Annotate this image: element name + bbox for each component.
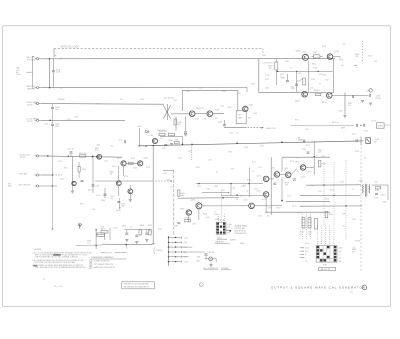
svg-text:CR131: CR131 [145,132,150,134]
box B167 amplitude [377,123,385,128]
wire osc inner rail [276,70,332,72]
svg-text:R171: R171 [386,125,390,127]
svg-text:+25V (DCPL): +25V (DCPL) [163,98,174,100]
svg-text:1k: 1k [352,189,354,191]
svg-text:VALUES AND S/N CHANGES OF: VALUES AND S/N CHANGES OF [124,285,149,288]
svg-text:R191: R191 [300,232,304,234]
node junction row2 [49,87,51,89]
svg-text:R187: R187 [342,213,346,215]
wire Q141 emitter down [175,117,177,132]
wire P180 drop [168,265,170,267]
resistor R182 [185,220,191,222]
svg-text:R116: R116 [88,189,92,191]
svg-text:R150: R150 [306,145,310,147]
svg-text:+20V: +20V [376,95,381,97]
svg-text:ALL OPERATION: ALL OPERATION [204,267,219,270]
notes bold patch 2 [33,265,37,267]
svg-text:R162: R162 [280,74,284,76]
svg-text:(GND): (GND) [116,210,121,212]
connector J101 [36,58,38,60]
resistor R131 [159,133,165,136]
node junction row4 [49,120,51,122]
svg-text:C157: C157 [342,43,346,45]
capacitor C166 [352,95,354,98]
svg-text:Q175: Q175 [244,200,248,202]
switch S190 matrix frame [316,246,337,263]
ground stub x345 [344,93,346,115]
connector P180 stubs [169,237,182,239]
svg-text:C165: C165 [339,111,343,113]
svg-text:2.2k: 2.2k [95,150,98,152]
switch S190 caption [319,267,336,270]
wire P180 row4 ext [182,251,205,253]
svg-text:-B-: -B- [43,279,46,281]
wire +12V drop [138,128,140,146]
wire +55V rail y183 [196,183,263,185]
node dot E [313,156,315,158]
svg-text:C159: C159 [302,51,306,53]
svg-text:1k: 1k [253,171,255,173]
svg-text:OUT: OUT [374,182,378,184]
svg-text:+12V: +12V [96,144,101,146]
svg-text:33: 33 [216,171,218,173]
svg-text:POWER SUPPLIES: POWER SUPPLIES [94,261,110,263]
connector J111 [36,155,38,157]
svg-text:15k: 15k [110,174,113,176]
svg-text:5k: 5k [300,234,302,236]
svg-text:R195: R195 [101,228,105,230]
wire S180 top feeds [217,214,219,222]
svg-text:R197: R197 [148,225,152,227]
svg-text:R151: R151 [196,167,200,169]
svg-text:T180: T180 [359,181,363,183]
wire rail feed horizontal [76,244,102,247]
svg-text:OUTPUT & SQUARE WAVE CAL GENER: OUTPUT & SQUARE WAVE CAL GENERATOR [271,285,366,289]
wire row7 trig stub [41,185,57,187]
wire D link2 [280,173,286,175]
dotted long feeds [323,162,325,225]
resistor R152 [319,161,321,167]
svg-text:.02: .02 [246,190,248,192]
switch S180 top ticks [219,219,221,221]
wire E lower [306,167,315,169]
parts list box [122,282,155,289]
wire D link3 [291,169,297,175]
svg-text:X1: X1 [305,254,307,256]
svg-text:Q121: Q121 [117,158,121,160]
svg-text:R171: R171 [252,161,256,163]
svg-text:C182: C182 [206,217,210,219]
svg-text:C142: C142 [199,87,203,89]
transistor Q162 [327,54,333,60]
wire row2 drop to osc [246,88,248,93]
svg-text:AUTO CAL LOOP: AUTO CAL LOOP [61,46,80,49]
wire Q124 stub [129,185,131,189]
svg-text:10k: 10k [110,145,113,147]
svg-text:Q131: Q131 [149,135,153,137]
svg-text:(DCPL): (DCPL) [20,157,26,159]
box delay pickoff [236,111,246,124]
svg-text:470: 470 [348,105,351,107]
svg-text:(DCPL): (DCPL) [27,121,33,123]
wire mid vertical rail [152,146,154,245]
wire Q124 down [129,194,131,199]
svg-text:390: 390 [222,190,225,192]
svg-text:470: 470 [285,185,288,187]
svg-text:R146: R146 [214,118,218,120]
transistor Q141 [189,111,195,117]
wire base link Q141 Q142 [171,113,189,115]
svg-text:C150: C150 [321,156,325,158]
svg-text:10k: 10k [300,79,303,81]
svg-text:.001: .001 [55,126,59,128]
svg-text:C111 .01: C111 .01 [67,149,74,151]
svg-text:R124: R124 [124,176,128,178]
wire Q123 stub [118,166,120,181]
capacitor C190 [205,253,208,255]
svg-text:1k: 1k [319,83,321,85]
transistor Q163 [302,91,308,97]
resistor R163 [303,78,306,85]
wire C rail y195 [221,194,265,196]
capacitor C151 [307,151,310,153]
connector J112 [36,174,38,176]
svg-text:LINE VOLTAGE HELD AT 117 VAC,: LINE VOLTAGE HELD AT 117 VAC, NOMINAL LO… [35,256,79,259]
wire row4 sense line [41,119,125,121]
svg-text:Q182: Q182 [180,209,184,211]
svg-text:NE-2: NE-2 [197,261,201,263]
svg-text:C105: C105 [67,119,71,121]
svg-text:R198: R198 [114,227,118,229]
svg-text:C147: C147 [208,159,212,161]
svg-text:C160: C160 [266,75,270,77]
svg-text:R184: R184 [330,189,334,191]
svg-text:R170: R170 [295,119,299,121]
svg-text:C143: C143 [218,121,222,123]
svg-text:C155: C155 [318,191,322,193]
capacitor C171 [273,182,276,184]
node dots rows67 [52,174,53,175]
small cluster parts row5 [81,180,84,182]
svg-text:R170 1k: R170 1k [332,122,338,124]
capacitor C101 22uF [52,70,55,72]
wire Q164 out [332,94,369,96]
svg-text:C187: C187 [352,219,356,221]
wire C rail y198 [178,197,239,200]
svg-text:.05: .05 [130,227,132,229]
wire stub x249 [249,168,251,198]
svg-text:Q143: Q143 [249,105,253,107]
svg-text:C163: C163 [298,73,302,75]
svg-text:SQUARE WAVE: SQUARE WAVE [235,224,248,227]
svg-text:C125: C125 [188,151,192,153]
svg-text:R142: R142 [215,110,219,112]
dotted verticals left set [302,214,304,239]
transistor Q122 [138,161,143,166]
transistor Q174 [263,192,269,198]
wire row2 gnd bus [41,87,247,89]
diode CR131 [146,130,149,133]
transistor Q182 [186,210,191,215]
svg-text:18k: 18k [92,209,95,211]
transistor Q111 [97,154,102,159]
wire row5 supply line [41,156,123,157]
svg-text:470: 470 [341,65,344,67]
node dots row5 [68,155,69,156]
svg-text:.1: .1 [305,258,306,260]
wire D q174 down [265,197,267,212]
svg-text:10k: 10k [342,225,345,227]
svg-text:C176: C176 [287,195,291,197]
svg-text:R115: R115 [82,169,86,171]
svg-text:R155: R155 [310,185,314,187]
svg-text:C131: C131 [162,148,166,150]
transformer T180 primary [363,185,364,194]
svg-text:R167: R167 [265,79,269,81]
svg-text:220: 220 [355,56,358,58]
resistor R112 [80,155,86,157]
svg-text:VR153: VR153 [297,213,302,215]
svg-text:C122: C122 [133,167,137,169]
transistor Q172 [274,172,280,178]
lamp DS190 [209,257,213,261]
wire lamp leads [205,258,209,260]
svg-text:R133: R133 [175,139,179,141]
wire D link1 [269,178,274,180]
svg-text:R174: R174 [290,161,294,163]
svg-text:R158: R158 [322,46,326,48]
svg-text:EXT: EXT [227,233,230,235]
wire T180 out top [372,184,389,186]
svg-text:MOD: MOD [8,186,13,188]
svg-text:R114: R114 [64,167,68,169]
tick mark x355 [354,64,357,66]
parts at rail y125 [356,124,358,127]
wire osc right edge [333,59,335,93]
resistor R161 [275,62,278,70]
svg-text:R179: R179 [292,206,296,208]
svg-text:R104: R104 [75,116,79,118]
wire rail y125 [291,124,354,126]
capacitor C131 [164,144,167,146]
svg-text:R162: R162 [197,186,201,188]
svg-text:+ GATE OUT: + GATE OUT [265,127,277,130]
wire C vert x173.8 [173,170,175,235]
svg-text:.01: .01 [305,261,307,263]
svg-text:Q151: Q151 [295,162,299,164]
diode CR141 cross [164,106,171,119]
svg-text:C191: C191 [148,230,152,232]
svg-text:C165: C165 [232,187,236,189]
svg-text:R165: R165 [323,74,327,76]
svg-text:C195: C195 [122,226,126,228]
transistor Q143 [243,106,248,111]
svg-text:X100: X100 [305,248,309,250]
svg-text:22k: 22k [120,99,123,101]
svg-text:CRT SWEEP CIRCUITS: CRT SWEEP CIRCUITS [94,264,114,266]
svg-text:.001: .001 [203,118,206,120]
wire branch bottom [72,186,74,191]
svg-text:R154: R154 [355,151,359,153]
svg-text:R132: R132 [169,140,173,142]
svg-text:R127: R127 [111,196,115,198]
svg-text:R140: R140 [186,91,190,93]
svg-text:C183: C183 [340,181,344,183]
capacitor C141 [184,131,187,133]
svg-text:R164: R164 [214,186,218,188]
wire E vertical [313,141,315,157]
svg-text:1: 1 [90,261,91,263]
resistor R121 [129,162,134,164]
transistor Q131 [152,138,157,143]
wire rail y206 [300,205,363,207]
svg-text:(GND): (GND) [101,200,106,202]
ground marks row I [125,239,128,241]
wire bus jog [298,139,306,141]
svg-text:(DCPL): (DCPL) [27,104,33,106]
wire C111 stub [70,153,72,156]
svg-text:C140: C140 [173,100,177,102]
svg-text:C164: C164 [290,86,294,88]
svg-text:C170: C170 [305,129,309,131]
switch S190 left arrows [300,247,304,249]
switch S180 matrix frame [216,222,226,234]
svg-text:C164: C164 [325,79,329,81]
svg-text:R153: R153 [308,171,312,173]
wire C rail y192 [202,192,228,194]
wire top loop Q141 [183,89,238,91]
svg-text:2.2k: 2.2k [318,152,321,154]
wire osc bottom rail [259,92,334,94]
wire vertical bus upper [52,59,54,71]
wire D vert x282 [281,157,283,171]
svg-text:R192: R192 [308,232,312,234]
svg-text:AMPLIFIER / REGULATOR: AMPLIFIER / REGULATOR [94,266,116,269]
svg-text:C121: C121 [104,160,108,162]
capacitor C114 [92,184,95,186]
wire D out y212 [265,211,330,213]
svg-text:R177: R177 [277,208,281,210]
capacitor C185 [375,193,378,195]
wire bus vertical tap1 [191,145,193,161]
wire auto-cal-loop dashed feedback line [54,48,263,50]
svg-text:J B / C H 4: J B / C H 4 [54,286,63,288]
svg-text:10k: 10k [308,234,311,236]
svg-text:SEE CALIBRATION SECTION OF MAN: SEE CALIBRATION SECTION OF MANUAL BEFORE… [35,266,87,269]
resistor R193 vertical [315,219,318,230]
svg-text:C146: C146 [253,113,257,115]
svg-text:R145: R145 [195,118,199,120]
connector J102 [36,87,38,89]
svg-text:Y160: Y160 [313,52,317,54]
node junction row1 [49,58,51,60]
node junction row5 [47,155,49,157]
svg-text:Q163: Q163 [295,101,299,103]
svg-text:R126: R126 [178,157,182,159]
svg-text:R183: R183 [203,213,207,215]
node bus junctions [152,145,154,147]
dashes x362 top [361,40,363,61]
svg-text:10k: 10k [269,68,272,70]
cable shield bracket rows 1-2 [32,56,34,88]
capacitor C162 [295,83,298,85]
svg-text:C172: C172 [258,216,262,218]
svg-text:Q173: Q173 [284,168,288,170]
svg-text:POSN SHOWN: POSN SHOWN [235,233,248,235]
transformer T180 secondary [369,185,370,194]
svg-text:R160: R160 [262,55,266,57]
svg-text:X10: X10 [305,251,308,253]
svg-text:R173: R173 [247,179,251,181]
wire between Q121 Q122 [126,162,138,164]
svg-text:S190: S190 [323,264,327,266]
svg-text:R164 1k: R164 1k [314,90,320,92]
svg-text:6.8k: 6.8k [181,195,184,197]
svg-text:R125: R125 [146,167,150,169]
svg-text:R122: R122 [112,166,116,168]
svg-text:680: 680 [178,124,181,126]
resistor R185 [376,187,381,189]
svg-text:R199: R199 [158,229,162,231]
svg-text:R159: R159 [368,55,372,57]
svg-text:C106: C106 [44,123,48,125]
wire gate drive line [95,180,154,182]
svg-text:2.2k: 2.2k [87,243,90,245]
svg-text:C166: C166 [265,87,269,89]
svg-text:R162: R162 [285,61,289,63]
connector P180 spine [168,236,170,265]
wire gate drive dashed arrow [155,180,171,182]
wire osc left edge [258,59,260,93]
svg-text:1k: 1k [290,68,292,70]
wire row3 sense line [41,103,164,106]
svg-text:33k: 33k [364,157,367,159]
svg-text:C190 .05: C190 .05 [208,252,215,254]
svg-text:Q171: Q171 [257,176,261,178]
svg-text:R167: R167 [260,145,264,147]
svg-text:R141 2.7k: R141 2.7k [196,108,204,110]
svg-text:C112: C112 [58,161,62,163]
svg-text:R121: R121 [131,158,135,160]
svg-text:C144: C144 [220,105,224,107]
transistor Q171 [263,176,269,182]
svg-text:R149: R149 [222,91,226,93]
notes bold patch [53,254,60,256]
svg-text:2: 2 [200,285,201,287]
wire osc inner v1 [275,59,277,62]
svg-text:4.7k: 4.7k [243,185,246,187]
svg-text:C114: C114 [96,185,100,187]
node dot y136 [182,144,184,146]
svg-text:60k: 60k [238,93,241,95]
transistor Q164 [327,93,333,99]
resistor R143 [174,119,176,125]
wire gate out dashed [248,127,262,129]
svg-text:22k: 22k [170,186,173,188]
node rail dots [323,184,324,185]
svg-text:RATE SW: RATE SW [216,240,224,243]
wire long vertical ground bus [52,104,54,108]
svg-text:2: 2 [90,264,91,266]
svg-text:x10: x10 [160,138,163,140]
title drawing number left [199,283,203,287]
svg-text:.001: .001 [55,109,59,111]
wire rail y185 [306,184,361,186]
wire lamp gnd [210,263,212,264]
svg-text:100: 100 [227,227,230,229]
svg-text:Q162: Q162 [335,51,339,53]
resistor R194 [325,212,328,218]
